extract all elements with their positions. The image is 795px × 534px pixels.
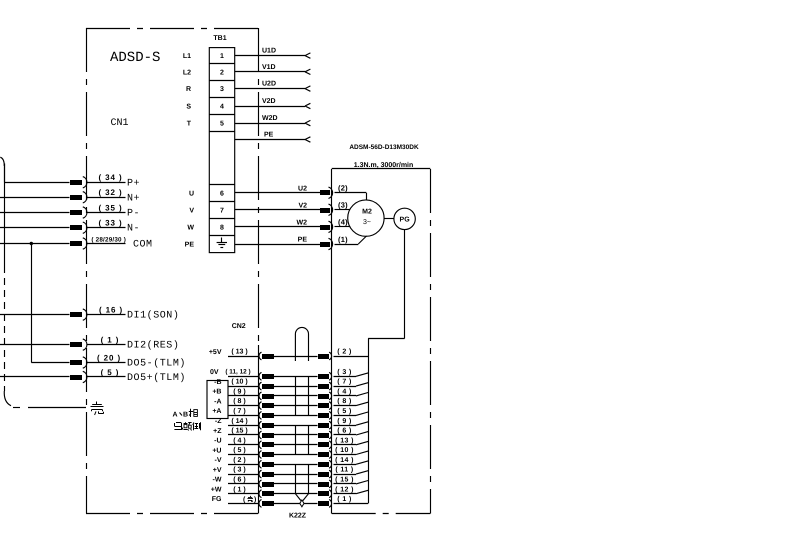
- svg-text:( 14 ): ( 14 ): [231, 417, 247, 425]
- wire encoder bundle bus: [368, 339, 370, 504]
- svg-text:M2: M2: [362, 209, 372, 216]
- TB1 pin numbers 6-8: [220, 190, 224, 231]
- wire COM pin ( 28/29/30 ): [0, 236, 153, 250]
- svg-text:+V: +V: [213, 467, 222, 474]
- note phase swapped: [174, 422, 200, 430]
- svg-text:( 6 ): ( 6 ): [337, 427, 351, 435]
- svg-text:4: 4: [220, 104, 224, 111]
- svg-text:3~: 3~: [363, 219, 371, 226]
- svg-text:6: 6: [220, 190, 224, 197]
- svg-text:( 10 ): ( 10 ): [231, 378, 247, 386]
- svg-text:( 1 ): ( 1 ): [337, 495, 351, 503]
- svg-text:+A: +A: [212, 408, 221, 415]
- cable shield dashed line left: [4, 164, 24, 408]
- CN2 pin FG SHELL to motor pin ( 1 ): [212, 495, 368, 507]
- CN2 pin -A ( 8 ) to motor pin ( 8 ): [214, 397, 368, 409]
- svg-text:( 35 ): ( 35 ): [98, 203, 122, 212]
- svg-text:COM: COM: [133, 240, 153, 251]
- svg-text:U2D: U2D: [262, 81, 276, 88]
- svg-text:( 4 ): ( 4 ): [233, 436, 245, 444]
- TB1 ground terminal symbol: [217, 238, 227, 248]
- svg-text:B: B: [183, 412, 188, 419]
- terminal block TB1 body: [209, 48, 234, 253]
- svg-text:( 12 ): ( 12 ): [335, 485, 354, 493]
- svg-text:U1D: U1D: [262, 48, 276, 55]
- svg-text:+U: +U: [212, 447, 221, 454]
- wire V1D: [235, 64, 311, 75]
- box around swapped A B phase pins: [207, 381, 228, 419]
- svg-text:( 7 ): ( 7 ): [233, 407, 245, 415]
- svg-text:PG: PG: [400, 216, 411, 223]
- svg-text:-W: -W: [213, 477, 222, 484]
- svg-text:PE: PE: [298, 237, 308, 244]
- CN2 pin +V ( 3 ) to motor pin ( 11 ): [213, 466, 368, 478]
- CN2 pin -W ( 6 ) to motor pin ( 15 ): [213, 476, 369, 488]
- svg-text:L1: L1: [183, 53, 191, 60]
- svg-text:( 9 ): ( 9 ): [233, 388, 245, 396]
- svg-text:V: V: [189, 207, 194, 214]
- wire P- pin ( 35 ): [0, 203, 140, 219]
- wire PE: [235, 132, 311, 143]
- svg-text:( 5 ): ( 5 ): [101, 368, 120, 377]
- svg-text:(2): (2): [338, 184, 348, 193]
- drive unit ADSD-S dashed enclosure: [86, 28, 259, 514]
- svg-text:+W: +W: [211, 487, 222, 494]
- CN2 pin +B ( 9 ) to motor pin ( 4 ): [212, 388, 368, 400]
- wire COM branch to DO5-: [31, 244, 33, 363]
- wire motor pin (2) to motor M2 top: [335, 193, 367, 200]
- svg-text:( 5 ): ( 5 ): [233, 446, 245, 454]
- motor M2: [348, 200, 384, 236]
- svg-text:( 8 ): ( 8 ): [337, 397, 351, 405]
- svg-text:ADSM-56D-D13M30DK: ADSM-56D-D13M30DK: [349, 144, 419, 151]
- junction on COM wire: [30, 242, 33, 245]
- svg-text:DO5-(TLM): DO5-(TLM): [127, 358, 186, 370]
- wire DI1(SON) pin ( 16 ): [0, 305, 179, 321]
- svg-text:R: R: [186, 86, 191, 93]
- svg-text:V2D: V2D: [262, 98, 276, 105]
- svg-text:( 14 ): ( 14 ): [335, 456, 354, 464]
- svg-text:P-: P-: [127, 209, 140, 220]
- CN2 pin -Z ( 14 ) to motor pin ( 9 ): [215, 417, 368, 429]
- svg-text:W: W: [187, 224, 194, 231]
- svg-text:7: 7: [220, 207, 224, 214]
- wire PG step across: [368, 338, 405, 340]
- svg-text:PE: PE: [264, 132, 274, 139]
- twisted pair marks group 1: [296, 376, 309, 415]
- wire P+ pin ( 34 ): [4, 173, 140, 189]
- svg-text:( 15 ): ( 15 ): [231, 427, 247, 435]
- wire U2 to motor pin (2): [235, 184, 348, 199]
- encoder PG: [394, 208, 415, 229]
- svg-text:( 1 ): ( 1 ): [233, 485, 245, 493]
- label shell glyph: [91, 402, 104, 416]
- wire motor pin (3) to motor M2: [335, 209, 350, 211]
- shield drain diamond: [300, 500, 304, 507]
- svg-text:( 3 ): ( 3 ): [233, 466, 245, 474]
- svg-text:( 5 ): ( 5 ): [337, 407, 351, 415]
- wire M2 to PG: [384, 218, 394, 220]
- CN2 pin -U ( 4 ) to motor pin ( 13 ): [214, 436, 368, 448]
- svg-text:DI2(RES): DI2(RES): [127, 340, 179, 352]
- svg-text:-A: -A: [214, 398, 221, 405]
- svg-text:CN2: CN2: [232, 323, 246, 330]
- svg-text:( 3 ): ( 3 ): [337, 368, 351, 376]
- svg-text:DO5+(TLM): DO5+(TLM): [127, 372, 186, 384]
- wire motor pin (4) to motor M2: [335, 226, 351, 228]
- twisted pair marks group 3 with shield drain: [295, 464, 308, 500]
- CN2 pin +U ( 5 ) to motor pin ( 10 ): [212, 446, 368, 458]
- wire N- pin ( 33 ): [0, 219, 140, 235]
- cable jacket arch: [295, 327, 308, 361]
- svg-text:W2: W2: [297, 220, 308, 227]
- svg-text:U: U: [189, 190, 194, 197]
- svg-text:+Z: +Z: [213, 428, 222, 435]
- svg-text:(4): (4): [338, 218, 348, 227]
- svg-text:K22Z: K22Z: [289, 512, 307, 519]
- cable hook top left: [0, 157, 4, 182]
- TB1 pin numbers 1-5: [220, 53, 224, 128]
- svg-text:( 13 ): ( 13 ): [231, 348, 247, 356]
- wire W2D: [235, 115, 311, 126]
- svg-text:( 11, 12 ): ( 11, 12 ): [225, 369, 250, 376]
- svg-text:3: 3: [220, 86, 224, 93]
- svg-text:T: T: [187, 121, 192, 128]
- svg-text:): ): [254, 496, 256, 504]
- CN2 pin -B ( 10 ) to motor pin ( 7 ): [214, 378, 368, 390]
- svg-text:( 11 ): ( 11 ): [335, 466, 353, 474]
- wire U1D: [235, 48, 311, 59]
- svg-text:1: 1: [220, 53, 224, 60]
- svg-text:( 8 ): ( 8 ): [233, 397, 245, 405]
- svg-text:(3): (3): [338, 201, 348, 210]
- TB1 left labels U V W PE: [185, 190, 195, 248]
- svg-text:PE: PE: [185, 242, 195, 249]
- svg-text:-U: -U: [214, 438, 221, 445]
- CN2 pin 0V ( 11, 12 ) to motor pin ( 3 ): [210, 368, 368, 380]
- svg-text:W2D: W2D: [262, 115, 278, 122]
- svg-text:-V: -V: [215, 457, 222, 464]
- svg-text:( 13 ): ( 13 ): [335, 436, 354, 444]
- svg-text:( 33 ): ( 33 ): [98, 219, 122, 228]
- svg-text:( 6 ): ( 6 ): [233, 476, 245, 484]
- svg-text:( 34 ): ( 34 ): [98, 173, 122, 182]
- svg-text:5: 5: [220, 121, 224, 128]
- svg-text:( 16 ): ( 16 ): [99, 305, 123, 314]
- wire PE to motor pin (1): [235, 235, 348, 250]
- svg-text:( 28/29/30 ): ( 28/29/30 ): [91, 236, 126, 243]
- svg-text:( 9 ): ( 9 ): [337, 417, 351, 425]
- svg-text:+B: +B: [212, 389, 221, 396]
- svg-text:DI1(SON): DI1(SON): [127, 310, 179, 322]
- svg-text:( 2 ): ( 2 ): [233, 456, 245, 464]
- svg-text:(1): (1): [338, 235, 348, 244]
- motor assembly enclosure: [332, 169, 431, 514]
- wire DO5+(TLM) pin ( 5 ): [0, 368, 186, 384]
- svg-text:1.3N.m, 3000r/min: 1.3N.m, 3000r/min: [354, 161, 414, 169]
- svg-text:N-: N-: [127, 224, 140, 235]
- svg-text:S: S: [186, 104, 191, 111]
- twisted pair marks group 2: [296, 425, 309, 454]
- svg-text:ADSD-S: ADSD-S: [110, 50, 160, 66]
- svg-text:A: A: [173, 412, 178, 419]
- svg-text:( 15 ): ( 15 ): [335, 476, 354, 484]
- svg-text:( 10 ): ( 10 ): [335, 446, 354, 454]
- wire N+ pin ( 32 ): [0, 188, 140, 204]
- TB1 left labels L1 L2 R S T: [183, 53, 192, 128]
- CN2 pin +Z ( 15 ) to motor pin ( 6 ): [213, 427, 368, 439]
- svg-text:( 20 ): ( 20 ): [97, 353, 121, 362]
- wire DI2(RES) pin ( 1 ): [0, 335, 179, 351]
- wire V2 to motor pin (3): [235, 201, 348, 216]
- svg-text:V2: V2: [298, 203, 307, 210]
- svg-text:V1D: V1D: [262, 64, 276, 71]
- svg-text:CN1: CN1: [111, 118, 129, 129]
- svg-text:TB1: TB1: [213, 35, 226, 42]
- svg-text:( 1 ): ( 1 ): [101, 335, 120, 344]
- wire motor pin (1) PE to motor frame: [335, 236, 367, 245]
- CN2 pin +A ( 7 ) to motor pin ( 5 ): [212, 407, 368, 419]
- note A B phase: [173, 409, 198, 419]
- svg-text:P+: P+: [127, 178, 140, 189]
- wire DO5-(TLM) pin ( 20 ): [31, 353, 186, 369]
- svg-text:2: 2: [220, 69, 224, 76]
- CN2 pin +W ( 1 ) to motor pin ( 12 ): [211, 485, 368, 497]
- svg-text:L2: L2: [183, 69, 191, 76]
- CN2 pin +5V ( 13 ) to motor pin ( 2 ): [209, 348, 368, 360]
- wire PG stem down: [404, 230, 406, 339]
- wire shell (case): [28, 407, 86, 409]
- svg-text:( 7 ): ( 7 ): [337, 378, 351, 386]
- svg-text:( 2 ): ( 2 ): [337, 348, 351, 356]
- wire V2D: [235, 98, 311, 109]
- CN2 pin -V ( 2 ) to motor pin ( 14 ): [215, 456, 369, 468]
- svg-text:+5V: +5V: [209, 349, 222, 356]
- svg-text:( 32 ): ( 32 ): [98, 188, 122, 197]
- svg-text:( 4 ): ( 4 ): [337, 388, 351, 396]
- wire W2 to motor pin (4): [235, 218, 348, 233]
- svg-text:N+: N+: [127, 193, 140, 204]
- wire U2D: [235, 81, 311, 92]
- svg-text:U2: U2: [298, 186, 307, 193]
- svg-text:0V: 0V: [210, 369, 219, 376]
- svg-text:FG: FG: [212, 496, 222, 503]
- svg-text:8: 8: [220, 225, 224, 232]
